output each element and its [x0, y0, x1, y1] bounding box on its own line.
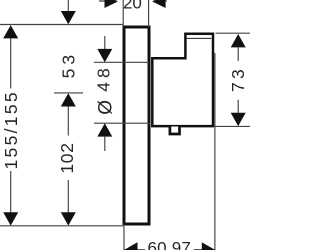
extension line diameter-48 bottom [94, 122, 150, 124]
arrow d48 top (outside) [97, 49, 112, 62]
wall plate (escutcheon, thick outline) [124, 27, 149, 224]
extension line top of plate (left) [0, 24, 123, 26]
dimension line 53 + 102 [67, 0, 69, 11]
arrow d48 bottom (outside) [97, 123, 112, 136]
arrow 155 bottom [3, 212, 18, 225]
arrow 20 right [152, 0, 165, 8]
extension line body bottom (right) [215, 125, 251, 127]
extension line 53/102 boundary [54, 92, 83, 94]
extension line diameter-48 top [94, 61, 149, 63]
dimension line d48 lower stub [104, 137, 106, 151]
handle inner line [186, 37, 211, 39]
svg-text:155/155: 155/155 [1, 90, 21, 169]
arrow 60.97 right [202, 242, 215, 250]
dimension line diameter 48 [104, 36, 106, 49]
svg-text:Ø: Ø [96, 100, 117, 115]
extension line 20 right [148, 0, 150, 27]
svg-text:20: 20 [123, 0, 142, 13]
dimension line 155/155 (far left) [10, 38, 12, 89]
dimension line 20 (top) [99, 0, 117, 2]
svg-text:102: 102 [57, 142, 77, 173]
arrow 102 bottom [61, 212, 76, 225]
extension line handle top (right) [216, 32, 251, 34]
notch below body [170, 127, 180, 135]
extension line bottom of plate (left) [0, 225, 124, 227]
dimension line 60.97 (bottom) [125, 249, 146, 250]
svg-text:73: 73 [228, 66, 248, 92]
svg-text:48: 48 [94, 64, 114, 91]
svg-text:53: 53 [58, 51, 78, 78]
valve body + handle silhouette [152, 34, 213, 126]
arrow 20 left [105, 0, 118, 8]
extension line 20 left [122, 0, 124, 26]
arrow 73 top [231, 34, 246, 47]
arrow 53 bottom / 102 top (outside/inside) [61, 93, 76, 106]
arrow 60.97 left [125, 242, 138, 250]
extension line bottom-left (depth dim) [123, 226, 125, 250]
dimension line 102 lower segment [67, 180, 69, 213]
svg-text:60.97: 60.97 [148, 239, 192, 250]
dimension line 102 upper segment [67, 107, 69, 136]
arrow 53 top (outside) [61, 11, 76, 24]
extension line bottom-right (depth dim, front face) [214, 53, 216, 250]
arrow 155 top [3, 25, 18, 38]
arrow 73 bottom [231, 113, 246, 126]
